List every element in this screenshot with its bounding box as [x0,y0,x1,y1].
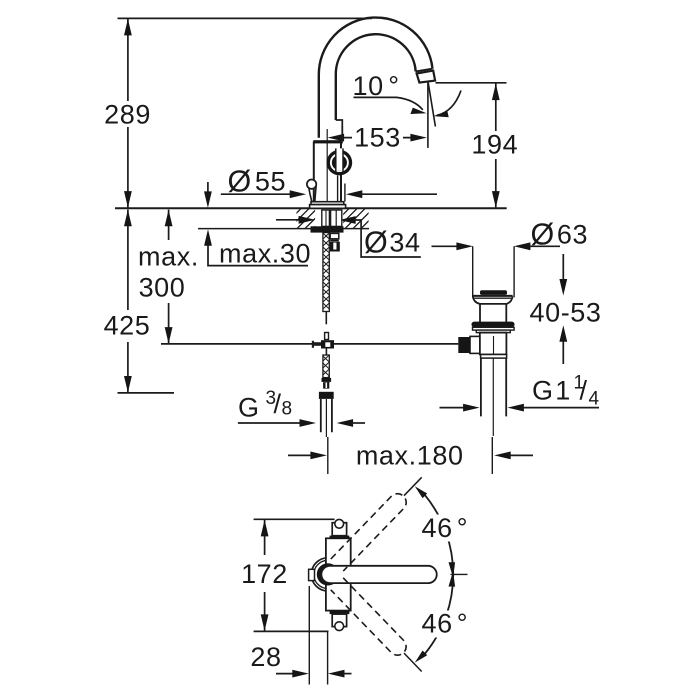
bottom cap circle [335,622,344,631]
46 lower axis reference line [404,653,422,671]
drain collar [473,327,515,330]
escutcheon base tier2 [310,205,346,209]
top collar band [330,536,350,539]
rod stub above joint [325,333,329,340]
top cap circle [335,519,344,528]
supply nut [319,392,334,399]
top cap [332,523,346,536]
dimension 425 line [127,210,129,393]
spout inner step [336,120,343,126]
handle slot [336,148,342,170]
rod left tick [312,341,314,348]
drain rod nut black [458,337,470,353]
diameter55 extension line [344,184,346,202]
dimension 194 line [495,83,497,207]
dimension 289 arrow down [124,191,132,208]
dimension 425 arrow up [124,210,132,227]
svg-text:153: 153 [354,123,401,153]
svg-text:1: 1 [574,373,585,394]
svg-text:300: 300 [139,273,186,303]
svg-text:G: G [238,393,260,423]
svg-text:289: 289 [104,100,151,130]
46 lower arc [425,573,454,654]
svg-text:46°: 46° [422,513,469,543]
dimension 153 line [342,137,412,139]
svg-text:Ø55: Ø55 [228,165,287,199]
lever axis tick [451,573,468,575]
dimension 40-53 [562,254,564,364]
dimension max300 arrow up [165,210,173,227]
drain bottom collar [481,355,507,359]
svg-text:8: 8 [282,399,293,420]
body right upper edge [341,126,343,141]
dimension max30 upper arrow [207,182,209,194]
dimension max300 arrow down [165,327,173,344]
172 top reference line [254,518,335,520]
dimension G1 1/4 [440,407,466,409]
svg-text:425: 425 [104,311,151,341]
425 bottom reference line [118,392,175,394]
faucet centerline [326,129,328,207]
svg-text:28: 28 [250,642,281,672]
lower fitting block [323,382,329,388]
46 upper axis reference line [404,477,422,495]
white backing for 46 labels [420,515,468,542]
svg-text:Ø63: Ø63 [531,217,589,251]
flexible hoses [331,210,342,226]
dimension 289 line [127,18,129,207]
body top thick band [313,140,343,143]
svg-text:4: 4 [589,389,600,410]
handle stem below wheel [338,175,342,201]
mounting nut [311,226,344,232]
dimension 425 arrow down [124,376,132,393]
spout end cut line [416,69,433,72]
hose fitting [330,233,339,238]
shank upper section [322,210,330,226]
bottom collar band [330,611,350,614]
handle wheel center white [335,159,343,167]
lever solid [321,566,436,583]
threaded shank below deck [323,233,329,312]
dimension max300 line [168,210,170,344]
svg-text:max.30: max.30 [219,239,311,269]
spout aerator [417,71,436,83]
svg-text:194: 194 [471,130,518,160]
handle wheel light ring [331,154,348,171]
lever dashed up [331,490,410,571]
drain tailpipe [481,358,506,416]
svg-text:172: 172 [241,559,288,589]
lower fitting band [322,378,332,382]
rod lower segment [325,348,327,355]
drain body [480,333,507,355]
svg-text:max.180: max.180 [356,441,464,471]
svg-text:40-53: 40-53 [529,298,601,328]
pop-up rod horizontal line [161,343,458,345]
dimension max30 lower arrow and leader [208,244,308,266]
dimension max180 [288,454,313,456]
drain tailpipe centerline [492,358,494,436]
10 degree swing arc arrow [437,91,461,116]
28 reference verticals [309,586,327,685]
dimension diameter34 arrows and leader [276,219,301,221]
lower threaded section [323,355,329,378]
svg-text:3: 3 [266,388,277,409]
svg-text:Ø34: Ø34 [364,226,421,260]
svg-text:max.: max. [138,242,199,272]
faucet body [314,142,341,202]
172 bottom reference line [254,630,329,632]
rod thin segment [325,312,327,325]
pivot black ring [320,566,337,583]
drain side tee [470,336,480,353]
handle wheel black disc [327,150,353,176]
194 top reference line [436,82,507,84]
dimension diameter55 line [221,193,294,195]
side notch [309,569,315,580]
water stream vertical line [427,83,429,148]
deck line [115,207,507,209]
lever dashed down [331,578,410,659]
rod thick segment left of joint [314,342,321,346]
drain body centerline [493,336,495,354]
escutcheon mid circle [314,560,342,588]
outlet axis tilted line [428,83,435,127]
drain o-ring black [472,322,515,328]
supply pipe centerline [325,399,327,437]
shank thread hatch [323,233,329,309]
svg-text:46°: 46° [422,609,469,639]
rod joint fitting [321,340,334,348]
side lever hook [307,180,316,189]
drain popup knob [480,290,507,295]
diameter63 extension lines [473,246,514,297]
escutcheon base tier1 [311,202,344,205]
supply pipe [321,399,332,432]
dimension 289 arrow up [124,19,132,36]
top reference line [118,17,373,19]
valve body rectangle [326,538,351,610]
escutcheon outer circle [311,558,344,591]
46 upper arc [425,495,454,576]
svg-text:10°: 10° [353,71,400,101]
diameter63 dimension [432,245,459,247]
dimension 28 [276,673,295,675]
spout gooseneck tube [319,18,433,138]
drain flange [473,295,513,297]
10 degree leader [354,97,423,109]
drain neck [480,304,506,322]
counter bottom line [198,228,369,230]
svg-text:G1: G1 [532,376,572,406]
dimension 172 line [264,520,266,631]
bottom cap [332,614,346,627]
dimension G3/8 [238,422,302,424]
